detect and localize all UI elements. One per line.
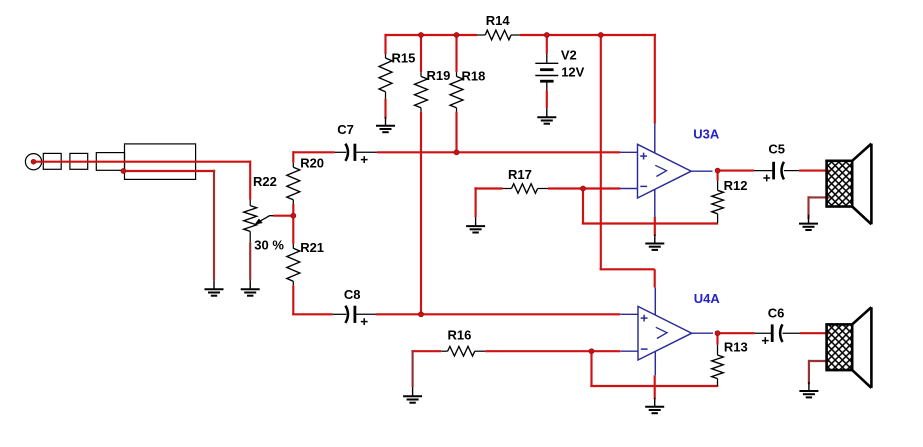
svg-text:C6: C6 — [768, 306, 785, 321]
svg-text:C8: C8 — [344, 287, 361, 302]
svg-text:R15: R15 — [392, 51, 416, 66]
svg-text:R22: R22 — [253, 174, 277, 189]
svg-text:R17: R17 — [508, 167, 532, 182]
svg-text:C7: C7 — [337, 122, 354, 137]
svg-text:C5: C5 — [768, 142, 785, 157]
svg-text:12V: 12V — [561, 64, 584, 79]
svg-text:R16: R16 — [448, 328, 472, 343]
svg-text:R14: R14 — [486, 13, 511, 28]
svg-text:U4A: U4A — [694, 291, 721, 306]
svg-text:R20: R20 — [300, 156, 324, 171]
svg-text:V2: V2 — [561, 48, 577, 63]
svg-text:R13: R13 — [724, 340, 748, 355]
svg-text:30 %: 30 % — [254, 238, 284, 253]
svg-text:R12: R12 — [724, 178, 748, 193]
svg-text:R21: R21 — [300, 240, 324, 255]
svg-text:R18: R18 — [462, 68, 486, 83]
svg-text:R19: R19 — [427, 68, 451, 83]
svg-text:U3A: U3A — [693, 127, 720, 142]
